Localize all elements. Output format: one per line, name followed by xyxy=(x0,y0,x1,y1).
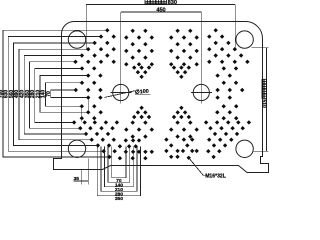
dim 510 arrow bottom xyxy=(266,149,267,152)
plate outline xyxy=(54,21,269,172)
bottom dim 70 xyxy=(112,147,126,185)
left dim bracket 490 xyxy=(14,49,92,140)
dim 450 arrow left xyxy=(121,12,124,13)
extension vertical 88 xyxy=(87,98,89,114)
extension vertical 82 xyxy=(81,106,83,121)
dim 830 label xyxy=(145,0,150,4)
dim 830 ext left xyxy=(85,4,87,48)
tie bar hole bottom-left xyxy=(68,140,85,157)
left dim bracket 140 xyxy=(41,82,82,106)
svg-text:350: 350 xyxy=(115,196,123,202)
left dim bracket 210 xyxy=(35,75,88,113)
dim 510 label xyxy=(261,79,267,108)
dim 830 arrow left xyxy=(86,4,89,5)
dim 830 line xyxy=(86,3,235,5)
dim 510 ext bottom xyxy=(253,150,268,152)
tie bar hole bottom-right xyxy=(236,140,253,157)
svg-text:M16*32L: M16*32L xyxy=(205,174,226,180)
tie bar hole top-right xyxy=(236,31,253,48)
left dim bracket 70 xyxy=(46,90,88,98)
dim 35 xyxy=(74,159,89,185)
left dim bracket 280 xyxy=(30,68,82,123)
dim 830 arrow right xyxy=(233,4,236,5)
locating hole circle right xyxy=(193,84,209,100)
left dim bracket 350 xyxy=(25,61,81,128)
svg-text:450: 450 xyxy=(156,7,165,13)
bottom dim 210 xyxy=(105,147,134,194)
bottom dim 350 xyxy=(97,147,140,203)
tie bar hole top-left xyxy=(68,31,85,48)
svg-text:35: 35 xyxy=(74,176,80,182)
dim 450 arrow right xyxy=(199,12,202,13)
crosshair horizontal right xyxy=(191,92,212,94)
dim 510 line xyxy=(265,48,267,152)
extension line left circle vertical xyxy=(120,12,122,103)
dim 510 ext top xyxy=(252,47,269,49)
leader M16*32L xyxy=(189,158,226,180)
svg-text:830: 830 xyxy=(168,0,177,6)
svg-text:70: 70 xyxy=(46,91,52,97)
dim 450 line xyxy=(121,11,202,13)
bottom dim 280 xyxy=(101,147,137,198)
left dim bracket 420 xyxy=(20,55,87,134)
crosshair horizontal left xyxy=(110,92,131,94)
extension line right circle vertical xyxy=(200,12,202,103)
left dim bracket 630 xyxy=(4,36,104,151)
locating hole circle left xyxy=(113,84,129,100)
left dim bracket 560 xyxy=(9,43,98,146)
dim 510 arrow top xyxy=(266,48,267,51)
bottom dim 140 xyxy=(108,147,130,189)
svg-text:510: 510 xyxy=(261,100,267,109)
leader dia100 xyxy=(105,89,151,98)
dim 830 ext right xyxy=(234,4,236,48)
hole pattern dots xyxy=(72,28,251,160)
svg-text:∅100: ∅100 xyxy=(135,89,149,96)
left dim bracket 700 xyxy=(0,30,109,157)
